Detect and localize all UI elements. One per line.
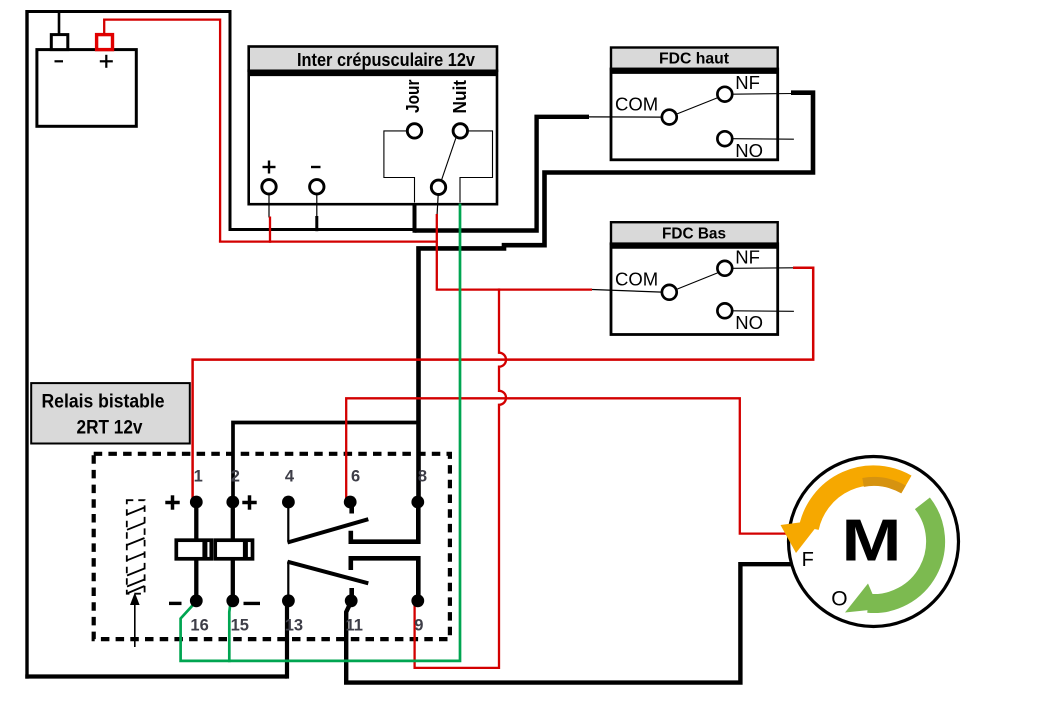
FDC Bas contact circle COM: [662, 285, 677, 300]
relay armature hatched bar: [127, 500, 145, 594]
svg-text:NF: NF: [735, 72, 760, 93]
pin stub + (inter): [268, 194, 270, 218]
svg-text:16: 16: [190, 616, 208, 634]
wire Jour branch: [384, 131, 415, 203]
wire outer left vertical: [25, 10, 28, 679]
wire red horizontal y241: [219, 240, 437, 242]
relay K1 dashed outline: [94, 454, 450, 639]
motor rotation arrow O (green): [845, 503, 936, 612]
svg-text:FDC haut: FDC haut: [659, 51, 729, 68]
wire FDC haut NF loop to relay: [419, 93, 814, 501]
relay contact NC stub pin 6: [349, 505, 354, 514]
FDC Bas wire COM thin: [592, 290, 662, 293]
relay pin dot 11: [345, 594, 358, 607]
battery label +: [100, 55, 113, 68]
FDC Bas contact circle NO: [717, 303, 732, 318]
relay - mark right: [244, 602, 261, 605]
wire relay pin 15 green: [229, 604, 230, 663]
svg-text:13: 13: [285, 616, 303, 634]
relay contact NC stub pin 11: [349, 588, 354, 596]
relay label box: [31, 383, 190, 443]
relay pin dot 1: [190, 496, 203, 509]
terminal circle COM (inter): [431, 180, 445, 194]
svg-text:Jour: Jour: [403, 80, 423, 114]
svg-text:11: 11: [345, 616, 362, 634]
relay + mark right: [242, 495, 256, 509]
FDC haut body: [611, 69, 778, 160]
relay actuation arrow: [130, 593, 140, 648]
wire Nuit branch: [460, 131, 493, 203]
wire relay pin 11 to motor O: [346, 564, 791, 682]
wire to FDC haut COM: [415, 117, 590, 231]
FDC Bas header separator: [611, 245, 778, 249]
relay contact A fixed bar to pin 8: [351, 505, 419, 542]
FDC haut contact circle NF: [717, 87, 732, 102]
FDC Bas wire NF thin: [732, 267, 793, 270]
motor rotation arrow F (orange): [781, 475, 907, 553]
svg-text:4: 4: [285, 467, 295, 485]
relay contact B common stub (pin 13): [287, 562, 289, 596]
svg-text:O: O: [831, 588, 847, 611]
relay contact B fixed bar to pin 9: [351, 558, 419, 596]
svg-text:NF: NF: [735, 246, 760, 267]
relay coil 1: [176, 540, 211, 559]
terminal circle Jour: [407, 124, 421, 138]
motor M1 body circle: [789, 457, 959, 627]
twilight switch U1 box header: [249, 47, 497, 71]
svg-text:2: 2: [231, 467, 240, 485]
FDC Bas lever COM-NF: [677, 273, 718, 290]
FDC Bas wire NO thin: [732, 310, 794, 313]
wire negative horizontal y229: [229, 228, 417, 231]
relay pin dot 2: [226, 496, 239, 509]
wire negative drop at x230: [229, 10, 232, 230]
twilight switch header separator: [249, 72, 497, 77]
wire COM inter to FDC Bas COM: [437, 214, 592, 290]
limit switch FDC Bas header: [611, 222, 778, 244]
wire top rail: [26, 10, 231, 13]
FDC haut header separator: [611, 70, 778, 74]
twilight switch U1 body: [249, 71, 497, 204]
relay pin dot 13: [282, 594, 295, 607]
FDC haut contact circle NO: [717, 131, 732, 146]
battery label -: [55, 60, 64, 62]
svg-text:15: 15: [231, 616, 249, 634]
relay + mark left: [165, 495, 179, 509]
wire branch to relay pin 2: [233, 423, 420, 500]
svg-text:6: 6: [351, 467, 360, 485]
relay contact A common stub (pin 4): [287, 506, 289, 541]
relay contact B lever: [288, 562, 369, 584]
svg-text:Nuit: Nuit: [450, 80, 470, 114]
FDC haut wire COM thin: [588, 116, 662, 118]
svg-text:COM: COM: [615, 94, 658, 115]
wire battery positive loop: [104, 20, 220, 242]
svg-text:FDC Bas: FDC Bas: [662, 226, 726, 243]
battery BT1: [37, 50, 136, 127]
relay contact A lever: [288, 519, 369, 542]
wire FDC Bas NF to relay pin 1: [193, 268, 814, 500]
wire bottom left horizontal: [25, 674, 287, 678]
wire pin13 riser: [285, 603, 289, 679]
wire relay pin 6 to motor F: [346, 398, 789, 533]
FDC haut contact circle COM: [662, 110, 677, 125]
FDC haut lever COM-NF: [677, 98, 718, 115]
wire Jour stub thick: [413, 203, 417, 233]
FDC haut wire NF thin: [732, 93, 793, 96]
limit switch FDC haut header: [611, 48, 778, 70]
switch lever (inter): [441, 138, 456, 181]
svg-text:COM: COM: [615, 269, 658, 290]
svg-text:Relais bistable: Relais bistable: [42, 392, 165, 413]
relay pin dot 8: [411, 496, 424, 509]
svg-text:NO: NO: [735, 140, 763, 161]
label - (inter): [311, 166, 321, 168]
svg-text:8: 8: [418, 467, 427, 485]
relay pin dot 4: [282, 496, 295, 509]
FDC Bas body: [611, 244, 778, 335]
battery negative terminal: [51, 35, 68, 50]
battery positive terminal: [97, 35, 113, 50]
FDC Bas contact circle NF: [717, 261, 732, 276]
svg-text:NO: NO: [735, 312, 763, 333]
pin stub - (inter): [316, 194, 318, 218]
svg-text:M: M: [842, 507, 902, 573]
terminal circle - (inter): [310, 180, 324, 194]
relay coil 1 lead: [194, 502, 198, 601]
relay coil 2 lead: [231, 502, 235, 601]
wire battery negative to top rail: [58, 12, 61, 35]
svg-text:Inter crépusculaire 12v: Inter crépusculaire 12v: [297, 50, 475, 70]
terminal circle Nuit: [453, 124, 467, 138]
pin stub COM (inter): [437, 195, 438, 217]
svg-text:1: 1: [194, 467, 203, 485]
relay pin dot 6: [344, 496, 357, 509]
relay pin dot 15: [226, 594, 239, 607]
label + (inter): [263, 161, 276, 174]
terminal circle + (inter): [262, 180, 276, 194]
wire Nuit to relay pin 16 (green): [181, 204, 460, 661]
relay coil 2: [215, 540, 252, 559]
svg-text:F: F: [802, 549, 814, 571]
relay pin dot 9: [411, 594, 424, 607]
relay pin dot 16: [190, 594, 203, 607]
wire minus stub thick (inter): [315, 216, 318, 231]
wire red drop with hops to relay pin 9: [415, 288, 506, 668]
wire plus stub red (inter): [269, 217, 271, 243]
relay - mark left: [169, 602, 182, 605]
svg-text:9: 9: [414, 616, 423, 634]
svg-text:2RT 12v: 2RT 12v: [77, 418, 143, 439]
FDC haut wire NO thin: [732, 138, 794, 141]
